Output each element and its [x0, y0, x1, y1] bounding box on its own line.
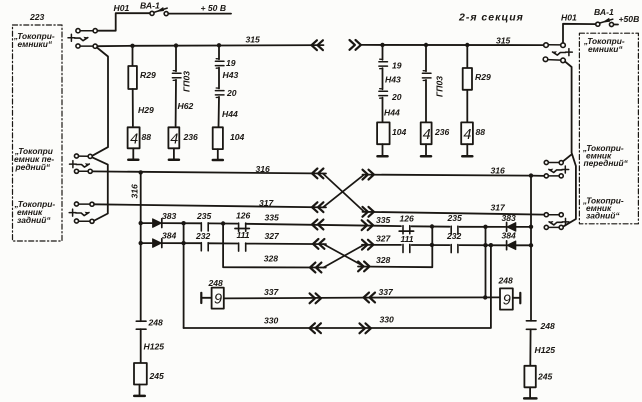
row 327 right wire segments: [362, 244, 401, 246]
svg-text:328: 328: [376, 255, 391, 265]
svg-text:+50В: +50В: [619, 14, 640, 24]
left bus detour out of front switch circle down to vertical: [93, 158, 108, 221]
connector chevron 317 right: [363, 207, 374, 217]
svg-text:248: 248: [148, 318, 164, 328]
left bus vertical lower part: [140, 329, 142, 363]
junction dot chain right on 315: [380, 43, 384, 47]
contact 232 right: [451, 245, 458, 253]
svg-text:384: 384: [162, 231, 177, 241]
ground lead under 236 left: [173, 148, 175, 158]
diode 383 left: [153, 219, 162, 228]
knife switch: tokopriemniki right, lower pair: [548, 59, 561, 62]
svg-text:235: 235: [447, 213, 463, 223]
svg-text:задний“: задний“: [17, 215, 51, 225]
knife switch: front collector left, upper pair: [79, 155, 89, 157]
svg-text:383: 383: [162, 211, 177, 221]
knife switch: tokopriemniki left, upper contact pair: [80, 30, 93, 32]
svg-text:248: 248: [208, 278, 224, 288]
left dash-dot connector box: [13, 25, 63, 241]
switch BA-1 right: [600, 19, 613, 23]
junction dot GP03 right on 315: [424, 43, 428, 47]
connector chevron 337 left (points right): [310, 293, 321, 303]
crossing diagonal 316-to-317: [323, 174, 364, 212]
wire 316 right segment: [363, 175, 545, 176]
junction dot row 384 on left bus: [139, 241, 143, 245]
svg-text:Н125: Н125: [144, 342, 165, 352]
junction dot row 383 on left bus: [139, 221, 143, 225]
svg-text:Н62: Н62: [178, 101, 194, 111]
svg-text:20: 20: [391, 92, 402, 102]
contact 20 right: [379, 91, 388, 95]
resistor 104 left: [213, 127, 223, 149]
svg-text:задний“: задний“: [586, 211, 620, 221]
resistor 236 left (box with 4): [168, 127, 179, 148]
actuator symbol of tokopriemniki switch left: [68, 34, 75, 41]
connector chevron 316 left: [312, 169, 323, 179]
svg-text:редний“: редний“: [15, 162, 51, 172]
diode 384 left: [153, 239, 162, 248]
svg-text:111: 111: [401, 234, 414, 244]
svg-text:245: 245: [537, 372, 553, 382]
resistor 104 right: [377, 122, 390, 144]
junction dot V1 bottom on 337: [483, 295, 487, 299]
crossing diagonal 317-to-316: [323, 175, 364, 208]
connector chevron 327 right: [362, 240, 373, 250]
svg-text:Н43: Н43: [385, 75, 401, 85]
actuator symbol tokopriemniki switch right: [566, 49, 573, 56]
svg-text:емники“: емники“: [18, 39, 53, 49]
svg-text:ГП03: ГП03: [435, 76, 445, 97]
svg-text:330: 330: [380, 314, 395, 324]
resistor R29 left lead: [132, 46, 134, 66]
resistor 245 right: [524, 366, 535, 388]
wire 317 left segment: [94, 204, 326, 207]
relay coil 9 left: [212, 288, 224, 309]
ground under 245 left: [134, 395, 145, 398]
vertical from 335 row down to wire 328 left: [223, 224, 326, 268]
connector chevron 330 left: [310, 323, 321, 333]
row 383/335 wire segments with contacts: [162, 222, 200, 224]
svg-text:317: 317: [491, 203, 507, 213]
wire from GP03 right to resistor: [425, 80, 427, 123]
resistor R29 right lead: [466, 45, 468, 68]
left bus: diagonal from switch, vertical, detour through front switch, to rear switch: [93, 48, 108, 156]
svg-text:4: 4: [463, 127, 471, 143]
ground lead under 236 right: [425, 144, 427, 155]
svg-text:315: 315: [496, 36, 511, 46]
svg-text:317: 317: [259, 198, 275, 208]
svg-text:Н01: Н01: [114, 3, 130, 13]
relay coil 9 right: [500, 288, 513, 309]
junction dot V1 top on 335 right: [483, 225, 487, 229]
wire to +50V left: [168, 13, 231, 15]
left bus vertical from 316 down to resistor 245: [140, 172, 142, 321]
wire from contact 20 to resistor 104 left: [218, 97, 221, 127]
right bus: diagonal from top switch, vertical, slant, down to rear switch: [564, 62, 576, 227]
svg-text:2-я секция: 2-я секция: [458, 12, 524, 24]
connector chevron 316 right: [363, 170, 374, 180]
right main vertical from 316 down to resistor 245: [530, 176, 532, 321]
contact 20 left: [215, 91, 224, 95]
ground lead under 245 right: [529, 387, 531, 397]
wire from BA-1 right to top switch: [563, 24, 596, 43]
wire between contacts left chain: [218, 68, 220, 89]
connector chevron 335 right: [362, 220, 373, 230]
relay 9 left lead: [201, 297, 211, 299]
svg-text:19: 19: [226, 58, 236, 68]
junction dot R29 left on wire 315: [130, 44, 134, 48]
wire from switch up to H01 / BA-1: [97, 13, 150, 31]
ground lead under 88 left: [132, 148, 134, 158]
row 384: wire from bus to diode: [141, 242, 152, 244]
svg-text:ВА-1: ВА-1: [594, 7, 614, 17]
knife switch: tokopriemniki right, upper pair: [548, 44, 561, 46]
svg-text:248: 248: [540, 321, 556, 331]
svg-text:248: 248: [498, 276, 514, 286]
svg-text:126: 126: [236, 210, 251, 220]
wire H01 right down to switch: [614, 24, 618, 26]
svg-text:4: 4: [423, 127, 431, 143]
svg-text:126: 126: [400, 213, 415, 223]
svg-text:327: 327: [265, 231, 281, 241]
svg-text:111: 111: [237, 230, 250, 240]
connector chevron 337 right (points left): [364, 293, 375, 303]
junction dot for 328 merge vertical on 335 right: [430, 224, 434, 228]
svg-text:R29: R29: [140, 70, 156, 80]
vertical linking rows 383 and 384 to wire 330 left: [183, 223, 185, 328]
actuator symbol front collector switch right: [562, 166, 569, 173]
ground under 88 left: [128, 159, 138, 162]
resistor 236 right (box with 4): [421, 122, 432, 144]
actuator symbol rear collector switch left: [69, 209, 76, 216]
svg-text:232: 232: [195, 231, 211, 241]
contact 111 right: [403, 244, 410, 252]
right dash-dot connector box: [579, 33, 638, 224]
relay 9 right terminal bar: [519, 293, 521, 303]
svg-text:384: 384: [502, 230, 517, 240]
junction dot 328 merge on 327 right: [430, 243, 434, 247]
svg-text:316: 316: [491, 166, 506, 176]
crossing diagonal 327-to-328: [324, 244, 365, 266]
svg-text:4: 4: [170, 131, 178, 147]
wire 315 left segment: [97, 45, 323, 46]
ground lead under 104 right: [382, 144, 384, 155]
junction dot top of right bus vertical: [529, 173, 533, 177]
resistor R29 left: [128, 66, 137, 89]
connector chevron 328 right: [358, 262, 369, 272]
svg-text:88: 88: [476, 127, 486, 137]
svg-text:9: 9: [503, 293, 511, 309]
resistor 245 left: [134, 363, 147, 385]
wire N29 left: [132, 89, 134, 126]
right main vertical lower part: [529, 329, 531, 366]
row 383: wire from bus to diode: [141, 222, 152, 224]
svg-text:104: 104: [392, 127, 407, 137]
junction dot 335 right at main vertical: [529, 225, 533, 229]
ground lead under 245 left: [139, 385, 141, 395]
connector chevron wire 315 left half: [312, 40, 323, 50]
actuator symbol rear collector switch right: [562, 218, 569, 225]
ground under 236 left: [169, 159, 179, 162]
wire R29 right to 88: [466, 90, 468, 122]
svg-text:236: 236: [183, 132, 199, 142]
svg-text:Н125: Н125: [535, 345, 556, 355]
wire 328 right merging up into 327: [358, 227, 432, 268]
contact 248 left on bus vertical: [136, 321, 146, 329]
svg-text:емники“: емники“: [588, 44, 623, 54]
svg-text:9: 9: [214, 292, 222, 308]
junction dot GP03 left on wire 315: [174, 43, 178, 47]
svg-text:20: 20: [226, 88, 237, 98]
diode 384 right: [507, 241, 516, 250]
ground lead under 88 right: [466, 144, 468, 155]
svg-text:335: 335: [265, 213, 280, 223]
contact 235 right: [451, 226, 458, 234]
svg-text:315: 315: [246, 35, 261, 45]
connector chevron 335 left: [312, 220, 323, 230]
svg-text:337: 337: [379, 287, 395, 297]
contact chain 19/20 right lead: [382, 45, 384, 60]
svg-text:330: 330: [264, 316, 279, 326]
knife switch: front collector left, lower pair: [79, 170, 89, 172]
knife switch: tokopriemniki left, lower contact pair: [80, 45, 93, 47]
actuator symbol front collector switch left: [70, 161, 77, 168]
svg-text:Н01: Н01: [561, 12, 577, 22]
wire 316 left segment: [92, 171, 326, 173]
svg-text:+ 50 В: + 50 В: [201, 3, 227, 13]
ground under 104 left: [213, 159, 223, 162]
junction dot 327 right at main vertical: [529, 243, 533, 247]
svg-text:245: 245: [149, 371, 165, 381]
contact GP03 right: [422, 73, 431, 78]
diode 383 right: [507, 223, 516, 232]
connector chevron 328 left: [310, 263, 321, 273]
junction dot on 316 for left bus vertical: [139, 170, 143, 174]
wire 337 left: [224, 297, 363, 300]
svg-text:Н29: Н29: [138, 105, 154, 115]
svg-text:232: 232: [446, 231, 462, 241]
knife switch: front collector right, upper pair: [548, 162, 559, 164]
connector chevron 330 right: [360, 323, 371, 333]
connector chevron wire 315 right half: [350, 40, 361, 50]
svg-text:235: 235: [196, 211, 212, 221]
connector chevron 317 left: [312, 202, 323, 212]
knife switch: rear collector left, upper pair: [79, 203, 90, 205]
svg-text:передний“: передний“: [584, 158, 629, 168]
resistor 88 right (box with 4): [461, 122, 473, 144]
contact 248 right on main vertical: [526, 321, 536, 330]
knife switch: rear collector right, upper pair: [548, 214, 559, 216]
junction dot V1 on 327 right: [483, 243, 487, 247]
junction dot V2 top on 327 right: [489, 243, 493, 247]
row 384/327 wire segments with contacts: [162, 242, 200, 244]
svg-text:316: 316: [256, 164, 271, 174]
svg-text:Н43: Н43: [223, 70, 239, 80]
relay 9 left terminal bar: [200, 293, 202, 303]
svg-text:104: 104: [230, 132, 245, 142]
junction dot contact chain left on wire 315: [217, 43, 221, 47]
vertical V2 from 327 right down to wire 330: [184, 245, 491, 328]
junction dot R29 right on 315: [465, 43, 469, 47]
wire 315 right segment: [361, 44, 544, 46]
svg-text:383: 383: [502, 213, 517, 223]
knife switch: rear collector left, lower pair: [79, 220, 90, 222]
contact 126 right: [403, 226, 410, 234]
wire 337 right: [363, 296, 500, 298]
svg-text:236: 236: [434, 127, 450, 137]
resistor 88 left (box with 4): [128, 127, 140, 148]
ground under 236 right: [421, 155, 431, 158]
wire between contacts right chain: [382, 68, 384, 89]
ground under 104 right: [378, 155, 388, 158]
vertical V1 from 335 right down to wire 337: [485, 227, 487, 298]
svg-text:328: 328: [264, 254, 279, 264]
contact 19 right: [379, 62, 388, 66]
svg-text:ВА-1: ВА-1: [140, 0, 160, 10]
knife switch: front collector right, lower pair: [548, 175, 559, 177]
contact GP03 right lead: [425, 45, 427, 71]
switch BA-1 left: [154, 8, 167, 12]
svg-text:223: 223: [29, 12, 45, 22]
resistor R29 right: [463, 68, 472, 90]
svg-text:Н44: Н44: [222, 109, 238, 119]
contact 19 left: [215, 61, 224, 65]
svg-text:337: 337: [264, 287, 280, 297]
contact GP03 left lead: [175, 46, 177, 72]
svg-text:19: 19: [392, 61, 402, 71]
svg-text:316: 316: [130, 184, 140, 199]
wire from contact 20 to resistor 104 right: [382, 98, 384, 123]
svg-text:ГП03: ГП03: [182, 71, 192, 92]
ground lead under 104 left: [217, 149, 219, 159]
svg-text:327: 327: [376, 233, 392, 243]
relay 9 right lead: [513, 297, 521, 299]
svg-text:88: 88: [142, 132, 152, 142]
contact GP03 left: [172, 73, 181, 78]
contact 19 left lead: [218, 45, 220, 59]
svg-text:335: 335: [376, 215, 391, 225]
wire 317 right segment: [363, 212, 545, 215]
svg-text:R29: R29: [475, 72, 491, 82]
svg-text:Н44: Н44: [384, 108, 400, 118]
branch diagonal to front collector switch right: [563, 155, 571, 161]
knife switch: rear collector right, lower pair: [548, 226, 559, 228]
ground under 88 right: [462, 155, 472, 158]
ground bar under 245 right: [524, 397, 536, 400]
crossing diagonal 328-to-327: [324, 245, 365, 268]
wire N62 left: [175, 80, 177, 126]
svg-text:4: 4: [130, 131, 138, 147]
connector chevron 327 left: [313, 239, 324, 249]
